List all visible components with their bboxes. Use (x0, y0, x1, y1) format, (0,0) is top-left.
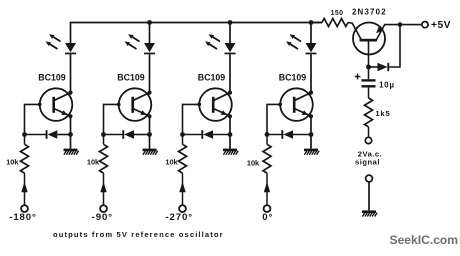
svg-text:0°: 0° (262, 212, 273, 223)
wire base Q1 (25, 104, 40, 134)
wire base Q2 (104, 104, 119, 134)
node base junction stage 2 (101, 132, 106, 137)
svg-text:1k5: 1k5 (375, 109, 390, 118)
svg-text:-270°: -270° (165, 212, 193, 223)
label plus polarity (355, 74, 361, 80)
svg-text:10k: 10k (165, 158, 178, 167)
label outputs from 5V reference oscillator (53, 230, 224, 239)
label -270 degrees (165, 212, 193, 223)
diode D2b (base clamp) (104, 130, 150, 139)
node emitter junction stage 3 (228, 132, 233, 137)
LED D4 (286, 34, 317, 54)
diode D4b (base clamp) (267, 130, 311, 139)
wire LED4 cathode to collector (310, 54, 312, 92)
ground stage 4 (304, 149, 319, 155)
svg-text:BC109: BC109 (198, 72, 225, 82)
label -180 degrees (9, 212, 37, 223)
terminal signal return (366, 175, 373, 182)
ground stage 2 (143, 149, 158, 155)
label -90 degrees (92, 212, 113, 223)
label BC109 Q1 (38, 72, 65, 82)
resistor R6 1k5 (365, 88, 373, 138)
svg-text:10k: 10k (247, 159, 260, 168)
node rail junction stage 2 (147, 20, 152, 25)
ground signal return (362, 210, 377, 216)
terminal input stage 1 (21, 205, 28, 212)
wire input stage 2 (100, 173, 106, 205)
svg-text:2N3702: 2N3702 (352, 8, 387, 17)
label 10k R4 (247, 159, 260, 168)
terminal +5V (422, 22, 428, 28)
transistor Q1 BC109 (38, 88, 73, 121)
svg-text:BC109: BC109 (279, 72, 306, 82)
svg-text:10µ: 10µ (379, 81, 395, 90)
svg-text:+5V: +5V (431, 20, 451, 31)
label 2Va.c. (358, 150, 383, 159)
wire rail to LED4 anode (310, 23, 312, 44)
diode D5 (base to +5V) (369, 25, 401, 72)
resistor R4 10k (263, 135, 271, 174)
label BC109 Q2 (117, 72, 144, 82)
wire LED2 cathode to collector (149, 54, 151, 92)
transistor Q2 BC109 (117, 88, 152, 121)
terminal input stage 2 (100, 205, 107, 212)
label +5V (431, 20, 451, 31)
wire input stage 4 (264, 173, 270, 205)
node base junction Q5 (366, 65, 371, 70)
ground stage 3 (223, 149, 238, 155)
wire +V rail (71, 23, 323, 44)
node base junction stage 4 (265, 132, 270, 137)
label 1k5 (375, 109, 390, 118)
wire emitter Q3 to ground (229, 116, 231, 148)
wire terminal to ground (368, 182, 370, 211)
wire rail to 150 resistor (311, 22, 322, 24)
terminal 2V a.c. signal (365, 137, 371, 143)
svg-text:SeekIC.com: SeekIC.com (390, 233, 459, 247)
wire LED1 cathode to collector (70, 54, 72, 92)
node base junction stage 3 (180, 132, 185, 137)
svg-text:outputs from 5V reference osci: outputs from 5V reference oscillator (53, 230, 224, 239)
wire input stage 1 (21, 173, 27, 205)
resistor R3 10k (179, 135, 187, 174)
node emitter junction stage 1 (68, 132, 73, 137)
wire base to capacitor (368, 67, 370, 79)
node emitter junction stage 2 (147, 132, 152, 137)
svg-text:-90°: -90° (92, 212, 113, 223)
label signal (355, 157, 380, 166)
label 2N3702 (352, 8, 387, 17)
label SeekIC.com watermark (390, 233, 459, 247)
wire emitter Q2 to ground (149, 116, 151, 148)
svg-text:BC109: BC109 (117, 72, 144, 82)
terminal input stage 4 (264, 205, 271, 212)
wire emitter Q1 to ground (70, 116, 72, 148)
terminal input stage 3 (179, 205, 186, 212)
wire base Q3 (183, 104, 200, 134)
node rail junction D5 (398, 22, 403, 27)
transistor Q3 BC109 (197, 88, 232, 121)
label BC109 Q4 (279, 72, 306, 82)
LED D1 (46, 34, 77, 54)
LED D2 (125, 34, 156, 54)
svg-text:150: 150 (331, 10, 344, 17)
transistor Q5 2N3702 (348, 23, 422, 55)
node base junction stage 1 (22, 132, 27, 137)
svg-text:signal: signal (355, 157, 380, 166)
resistor R1 10k (21, 135, 29, 174)
label 10k R3 (165, 158, 178, 167)
resistor R2 10k (100, 135, 108, 174)
wire base Q5 (368, 42, 370, 68)
label 10k R2 (87, 157, 100, 166)
wire LED3 cathode to collector (229, 54, 231, 92)
transistor Q4 BC109 (278, 88, 313, 121)
svg-text:-180°: -180° (9, 212, 37, 223)
svg-text:10k: 10k (87, 157, 100, 166)
diode D3b (base clamp) (183, 130, 231, 139)
label BC109 Q3 (198, 72, 225, 82)
wire rail to LED2 anode (149, 23, 151, 44)
label 0 degrees (262, 212, 273, 223)
LED D3 (205, 34, 236, 54)
label 10u (379, 81, 395, 90)
wire input stage 3 (179, 173, 185, 205)
node emitter junction stage 4 (309, 132, 314, 137)
wire base Q4 (267, 104, 280, 134)
label 150 (331, 10, 344, 17)
capacitor C1 10u (362, 79, 376, 87)
label 10k R1 (6, 157, 19, 166)
ground stage 1 (64, 149, 79, 155)
wire rail to LED3 anode (229, 23, 231, 44)
node rail junction stage 4 (309, 20, 314, 25)
resistor R5 150 (322, 19, 348, 27)
svg-text:10k: 10k (6, 157, 19, 166)
diode D1b (base clamp) (25, 130, 71, 139)
node rail junction stage 3 (228, 20, 233, 25)
wire emitter Q4 to ground (310, 116, 312, 148)
svg-text:BC109: BC109 (38, 72, 65, 82)
